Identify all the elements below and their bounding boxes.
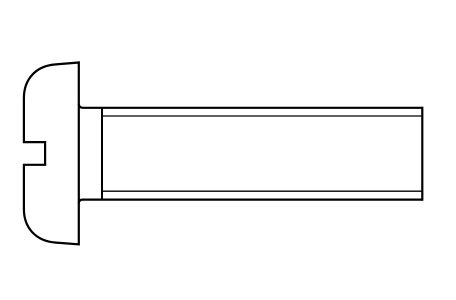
thread minor diameter bottom line [102,190,422,192]
shank outer top line with fillet at head [79,104,423,108]
shank right end vertical line [421,107,423,201]
thread start vertical line [101,108,103,200]
shank outer bottom line with fillet at head [79,200,423,204]
screw head outline (slotted pan head, side view) [24,63,79,245]
thread minor diameter top line [102,115,422,117]
